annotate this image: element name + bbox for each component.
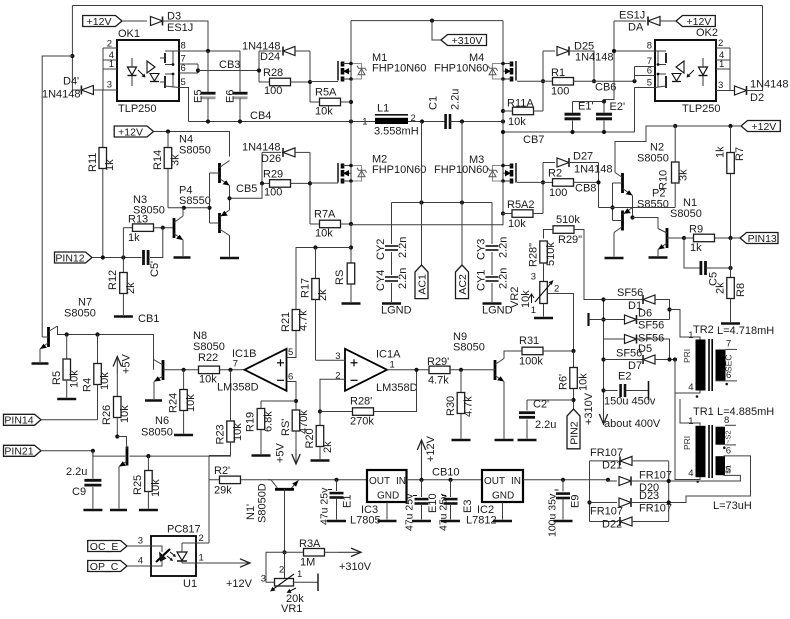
- wire to R5A2 node: [351, 214, 503, 225]
- ground LGND left: [382, 302, 401, 305]
- svg-text:R28: R28: [263, 67, 283, 79]
- svg-text:PIN2: PIN2: [568, 421, 580, 445]
- OK1 pin 6 wire: [179, 72, 198, 74]
- svg-text:3: 3: [718, 80, 723, 91]
- node N1 base: [682, 236, 686, 240]
- svg-text:+12V: +12V: [751, 121, 776, 133]
- wire N9 emitter ground: [503, 382, 505, 439]
- svg-text:PRI: PRI: [682, 436, 692, 450]
- svg-text:R31: R31: [519, 335, 539, 347]
- ground R8: [721, 322, 740, 325]
- wire left col to D4: [72, 89, 81, 91]
- resistor R5A 10k: [310, 101, 320, 103]
- wire IC1B pin6 node: [287, 382, 297, 411]
- potentiometer VR2 10k: [540, 282, 548, 304]
- svg-text:S8050: S8050: [453, 342, 485, 354]
- wire M3 gate column: [542, 163, 544, 214]
- resistor R20 2k: [319, 412, 321, 426]
- wire TR2 pin4: [675, 391, 700, 394]
- net label AC1: [415, 265, 428, 299]
- wire TR1 S2 bottom stub: [725, 444, 736, 446]
- wire N8 emitter down: [153, 382, 155, 400]
- capacitor C9 2.2u: [92, 451, 94, 479]
- wire IC3 in to +12V node: [407, 479, 483, 481]
- svg-text:2k: 2k: [715, 282, 727, 294]
- transistor P2 S8550: [621, 211, 624, 231]
- polarity dot TR2 sec: [725, 383, 728, 386]
- svg-text:R21: R21: [280, 312, 292, 332]
- svg-text:270k: 270k: [350, 416, 374, 428]
- ground N8 emitter: [145, 399, 162, 402]
- svg-text:GND: GND: [377, 491, 399, 502]
- node E9 top: [561, 478, 565, 482]
- svg-text:R29': R29': [427, 356, 449, 368]
- node M2 source R7A: [349, 222, 353, 226]
- capacitor C5 row: [684, 238, 700, 268]
- svg-text:CY2: CY2: [375, 239, 387, 260]
- node R5A to source: [349, 100, 353, 104]
- wire AC1 column: [421, 122, 423, 266]
- optocoupler OK2 TLP250 box: [655, 40, 716, 101]
- net label OC_E: [88, 541, 127, 552]
- svg-text:CB10: CB10: [432, 467, 460, 479]
- svg-text:R25: R25: [132, 475, 144, 495]
- svg-text:OUT: OUT: [484, 476, 505, 487]
- diode DA ES1J: [614, 20, 646, 22]
- svg-text:CB3: CB3: [219, 59, 240, 71]
- resistor R11A 10k: [503, 110, 513, 112]
- wire R2p left column: [208, 456, 210, 544]
- svg-text:R4: R4: [82, 378, 94, 392]
- svg-text:6.8k: 6.8k: [263, 411, 275, 432]
- svg-text:2.2u: 2.2u: [66, 466, 87, 478]
- node E5 top: [206, 49, 210, 53]
- net label +12V driver left: [114, 126, 153, 137]
- diode D2 1N4148: [730, 90, 735, 92]
- ground E10: [412, 520, 431, 523]
- wire N7 collector rail: [58, 326, 154, 370]
- svg-text:10k: 10k: [315, 106, 333, 118]
- node TR2 pin4 column: [673, 357, 677, 361]
- wire R29pp to SF56 bus: [574, 230, 604, 300]
- OK2 pin 2 stub: [716, 47, 730, 49]
- ground R5: [57, 398, 76, 401]
- svg-text:CB1: CB1: [138, 313, 159, 325]
- svg-text:+12V: +12V: [118, 126, 143, 138]
- svg-text:R2': R2': [214, 465, 230, 477]
- wire M2 source down: [350, 181, 352, 225]
- node RS R17 split: [349, 245, 353, 249]
- net label PIN14: [4, 414, 42, 425]
- svg-text:PC817: PC817: [167, 524, 201, 536]
- svg-text:3k: 3k: [170, 154, 182, 166]
- svg-text:4: 4: [688, 468, 693, 479]
- svg-text:R20: R20: [304, 428, 316, 448]
- OK1 internal receiver triangle: [147, 61, 155, 73]
- svg-text:2.2u: 2.2u: [535, 419, 556, 431]
- svg-text:10k: 10k: [315, 228, 333, 240]
- OK2 pin 7 wire: [635, 66, 656, 68]
- wire N6 out row: [130, 453, 231, 457]
- svg-text:1: 1: [297, 569, 302, 580]
- net label +12V right: [741, 121, 780, 132]
- capacitor E2prime: [603, 102, 605, 113]
- polarity dot TR1 S2: [723, 446, 726, 449]
- svg-text:10k: 10k: [508, 218, 526, 230]
- wire N9 collector to R31: [504, 351, 522, 359]
- svg-text:R8: R8: [735, 283, 747, 297]
- wire M2 gate column: [309, 152, 311, 224]
- wire driver base column left: [209, 173, 211, 223]
- svg-text:L=4.718mH: L=4.718mH: [717, 325, 774, 337]
- diode D21 FR107: [590, 460, 619, 462]
- svg-text:D2: D2: [750, 92, 764, 104]
- node R14 top: [166, 129, 170, 133]
- svg-text:E2': E2': [610, 101, 626, 113]
- wire M3 drain: [502, 122, 504, 166]
- OK1 internal photo arrows: [138, 70, 145, 77]
- transformer TR1 primary winding: [696, 426, 706, 477]
- svg-text:CB7: CB7: [523, 134, 544, 146]
- resistor R9 1k: [684, 237, 694, 239]
- svg-text:100: 100: [264, 85, 282, 97]
- svg-text:TLP250: TLP250: [118, 103, 157, 115]
- OK2 internal LED: [699, 67, 708, 75]
- svg-text:L7812: L7812: [466, 515, 497, 527]
- wire main bottom rail: [268, 479, 367, 481]
- ground N1 emitter: [649, 256, 668, 259]
- wire PIN14 to R4: [41, 419, 98, 421]
- capacitor C2prime 2.2u: [527, 399, 574, 401]
- resistor R10 3k: [674, 126, 676, 162]
- wire M4 source to rail: [502, 79, 504, 132]
- wire OK2 pin5 to CB7: [634, 88, 636, 133]
- ground N3 emitter: [174, 256, 191, 259]
- svg-text:5: 5: [726, 465, 731, 476]
- wire CB5 to gate network: [230, 183, 263, 198]
- ground R30: [452, 439, 471, 442]
- diode D6 SF56: [587, 313, 589, 326]
- svg-text:4: 4: [138, 556, 143, 567]
- wire TR2 pin6 stub: [716, 380, 738, 382]
- diode D20 FR107: [608, 480, 617, 482]
- capacitor E9 100u 35v: [562, 480, 564, 492]
- wire N6 row to R2p column: [209, 455, 231, 457]
- svg-text:C2': C2': [533, 399, 549, 411]
- node R12 top: [121, 255, 125, 259]
- net label PIN21: [4, 445, 42, 456]
- capacitor CY1 2.2n: [491, 252, 493, 275]
- svg-text:R30: R30: [445, 396, 457, 416]
- wire driver base column right: [612, 183, 614, 221]
- node R30 top: [459, 368, 463, 372]
- wire N1p collector down: [284, 489, 286, 552]
- op-amp IC1A LM358D: [345, 349, 387, 391]
- svg-text:6: 6: [288, 372, 293, 383]
- svg-text:2: 2: [279, 565, 284, 576]
- svg-text:5: 5: [647, 78, 652, 89]
- wire N3 collector up: [182, 208, 184, 216]
- wire M1 source to CB4: [350, 79, 352, 122]
- svg-text:FHP10N60: FHP10N60: [372, 63, 426, 75]
- resistor R2prime 29k: [209, 479, 230, 481]
- svg-text:510k: 510k: [545, 242, 557, 266]
- svg-text:R3A: R3A: [299, 538, 321, 550]
- node AC1 tap: [420, 119, 424, 123]
- svg-text:R6': R6': [558, 374, 570, 390]
- svg-text:1: 1: [390, 360, 395, 371]
- svg-text:1k: 1k: [690, 242, 702, 254]
- resistor R28doubleprime 510k: [540, 241, 548, 263]
- svg-text:R29: R29: [263, 169, 283, 181]
- capacitor E3 47u 25v: [450, 480, 452, 497]
- svg-text:DA: DA: [628, 22, 644, 34]
- resistor R28 100: [259, 81, 270, 83]
- svg-text:N1': N1': [245, 504, 257, 520]
- capacitor CY3 2.2n: [491, 203, 493, 245]
- arrow +12V pc817 out: [196, 562, 250, 564]
- OK2 pin 1 stub: [716, 68, 730, 70]
- diode D22 FR107: [590, 521, 619, 523]
- wire R17 row: [296, 247, 351, 249]
- svg-text:CY4: CY4: [375, 270, 387, 291]
- svg-text:OP_C: OP_C: [90, 561, 119, 573]
- transformer TR1 secondary S2: [716, 427, 726, 445]
- svg-text:+12V: +12V: [226, 578, 253, 590]
- svg-text:R12: R12: [107, 270, 119, 290]
- svg-text:OUT: OUT: [369, 476, 390, 487]
- svg-text:2.2n: 2.2n: [397, 237, 409, 258]
- wire to R19: [261, 400, 296, 402]
- wire P2 collector to ground: [613, 233, 615, 257]
- node R5A2: [501, 211, 505, 215]
- svg-text:10k: 10k: [99, 372, 111, 390]
- svg-text:R19: R19: [245, 412, 257, 432]
- svg-text:D3: D3: [167, 11, 181, 23]
- wire M3 source down: [502, 181, 504, 223]
- node +310V tap: [430, 19, 434, 23]
- ground IC3: [378, 520, 397, 523]
- diode D7 SF56: [604, 359, 644, 361]
- node TR2 pin1 tap: [667, 307, 671, 311]
- wire rect bus B: [668, 461, 670, 522]
- svg-text:U1: U1: [183, 578, 197, 590]
- wire IC1A output: [387, 369, 429, 371]
- node R7 top: [728, 124, 732, 128]
- node R10 top: [673, 124, 677, 128]
- svg-text:CY1: CY1: [476, 270, 488, 291]
- wire M1 gate column: [309, 51, 311, 102]
- OK1 pin 3 stub: [103, 89, 117, 91]
- capacitor C5prime: [142, 250, 145, 265]
- svg-text:R1: R1: [551, 67, 565, 79]
- svg-text:C1: C1: [428, 96, 440, 110]
- ground R24: [174, 434, 193, 437]
- node AC2 tap: [460, 119, 464, 123]
- node CB8: [596, 180, 600, 184]
- OK1 input side vertical: [102, 48, 104, 90]
- wire AC2 column: [461, 122, 463, 266]
- wire to N6 collector: [117, 437, 126, 444]
- PC817 photo arrows: [167, 556, 172, 560]
- svg-text:FHP10N60: FHP10N60: [434, 164, 488, 176]
- svg-text:2.2n: 2.2n: [498, 237, 510, 258]
- svg-text:+12V: +12V: [686, 16, 711, 28]
- capacitor CY2 2.2n: [391, 203, 393, 245]
- ground C9: [83, 509, 102, 512]
- svg-text:R5: R5: [51, 371, 63, 385]
- svg-text:+5V: +5V: [275, 442, 287, 463]
- svg-text:8: 8: [647, 41, 652, 52]
- wire IC1A pin3: [316, 359, 346, 361]
- OK1 internal output stage: [164, 53, 166, 63]
- svg-text:ES1J: ES1J: [167, 22, 193, 34]
- wire +310V bus between M1 M4 drains: [351, 20, 503, 22]
- node R11A at source: [501, 109, 505, 113]
- node M4 source / M3 drain: [501, 119, 505, 123]
- wire to +310V pennant: [432, 21, 441, 40]
- wire D3 cathode to E5/pin8 node: [163, 21, 208, 51]
- wire R7 col to C5 node: [730, 238, 732, 278]
- wire TR2 pin1: [670, 310, 701, 340]
- supply arrow +5V: [116, 357, 118, 375]
- svg-text:29k: 29k: [214, 485, 232, 497]
- ground N7 emitter: [32, 362, 49, 365]
- node fb divider: [294, 399, 298, 403]
- wire N2 base stub: [613, 182, 623, 184]
- node M3 gate: [541, 180, 545, 184]
- node C5 R8: [728, 266, 732, 270]
- OK2 pin 6 wire: [635, 75, 656, 77]
- svg-text:CB4: CB4: [250, 110, 271, 122]
- svg-text:E9: E9: [570, 495, 582, 508]
- svg-text:FHP10N60: FHP10N60: [372, 164, 426, 176]
- ground R19: [252, 454, 271, 457]
- svg-text:1N4148: 1N4148: [575, 52, 614, 64]
- svg-text:R24: R24: [168, 393, 180, 413]
- inductor L1 3.558mH: [375, 114, 408, 116]
- svg-text:IN: IN: [396, 476, 406, 487]
- svg-text:3: 3: [107, 80, 112, 91]
- svg-text:+310V: +310V: [452, 35, 483, 47]
- svg-text:SF56: SF56: [616, 348, 642, 360]
- IC3 L7805 box: [367, 470, 407, 502]
- svg-text:1M: 1M: [300, 557, 315, 569]
- svg-text:10k: 10k: [150, 479, 162, 497]
- node E6 bottom: [238, 119, 242, 123]
- resistor R23 10k: [227, 421, 235, 442]
- svg-text:FR107: FR107: [590, 447, 623, 459]
- node D1 bus: [601, 297, 605, 301]
- svg-text:GND: GND: [492, 491, 514, 502]
- svg-text:TR1: TR1: [693, 406, 714, 418]
- net label +12V (top left): [83, 16, 122, 27]
- diode D5 SF56: [604, 338, 625, 340]
- resistor R17 2k: [315, 248, 317, 279]
- svg-text:PIN21: PIN21: [4, 446, 33, 458]
- node CB3 column: [258, 51, 260, 82]
- svg-text:100k: 100k: [519, 356, 543, 368]
- node R11 bottom: [101, 255, 105, 259]
- svg-text:S8550: S8550: [637, 199, 669, 211]
- svg-text:S8050: S8050: [64, 308, 96, 320]
- svg-text:510k: 510k: [556, 214, 580, 226]
- wire L1 to C1: [408, 121, 446, 123]
- ground R25: [139, 509, 158, 512]
- svg-text:OK2: OK2: [696, 27, 718, 39]
- resistor R19 6.8k: [260, 401, 262, 409]
- ground E3: [441, 520, 460, 523]
- wire N7 emitter down: [39, 349, 41, 362]
- net CB7 rail: [503, 131, 635, 133]
- diode D25: [543, 50, 555, 52]
- wire IC1B pin5 to R21: [287, 331, 297, 358]
- wire M3 gate lead: [517, 181, 543, 183]
- OK2 input side vertical: [729, 48, 731, 91]
- net label +12V (OK2 anode): [676, 16, 715, 27]
- wire P2 base stub: [613, 220, 623, 222]
- wire N8 base row to R22: [163, 369, 199, 371]
- transistor N2 S8050: [621, 173, 624, 193]
- svg-text:FR107: FR107: [639, 503, 672, 515]
- svg-text:2: 2: [718, 38, 723, 49]
- wire DA column to pin8 and E caps: [604, 21, 614, 102]
- optocoupler OK1 TLP250 box: [117, 40, 179, 101]
- wire N3 emitter to ground: [182, 240, 184, 256]
- wire M4 gate column: [542, 51, 544, 111]
- svg-text:6: 6: [181, 63, 186, 74]
- svg-text:R9: R9: [689, 224, 703, 236]
- svg-text:CB5: CB5: [236, 183, 257, 195]
- OK1 pin 7 wire: [179, 63, 198, 65]
- transformer TR1 secondary S1: [716, 456, 726, 475]
- svg-text:10k: 10k: [69, 370, 81, 388]
- svg-text:D26: D26: [261, 153, 281, 165]
- OK1 internal LED: [128, 67, 137, 75]
- capacitor E1prime: [572, 102, 574, 113]
- node fb R20 R28p: [318, 409, 322, 413]
- svg-text:1: 1: [362, 117, 367, 128]
- potentiometer VR1 20k: [284, 552, 286, 578]
- svg-text:S8550: S8550: [179, 195, 211, 207]
- node E2 bus: [601, 388, 605, 392]
- node E3 top: [448, 478, 452, 482]
- svg-text:RS: RS: [334, 270, 346, 285]
- wire TR1 pin1: [680, 412, 700, 426]
- svg-text:1: 1: [688, 416, 693, 427]
- ground CB1: [114, 315, 133, 318]
- capacitor E1 47u 25v: [336, 480, 338, 491]
- transistor N6 S8050: [126, 447, 129, 466]
- node N3 collector: [182, 206, 186, 210]
- resistor R26 10k: [116, 374, 118, 397]
- OK1 pin 5 wire: [179, 88, 189, 122]
- ground C2p: [518, 439, 537, 442]
- svg-text:OK1: OK1: [118, 28, 140, 40]
- wire R10 bottom link: [613, 207, 676, 209]
- OK2 internal photo arrows: [687, 70, 694, 77]
- svg-text:R13: R13: [128, 214, 148, 226]
- svg-text:3: 3: [261, 574, 266, 585]
- svg-text:R28': R28': [350, 396, 372, 408]
- svg-text:R5A: R5A: [315, 87, 337, 99]
- resistor RSprime 470k: [292, 410, 300, 431]
- OK2 pin 8 wire: [614, 50, 655, 52]
- transistor M3 FHP10N60: [510, 164, 514, 169]
- node M2 gate: [308, 181, 312, 185]
- svg-text:E1': E1': [578, 101, 594, 113]
- svg-text:E6: E6: [225, 90, 237, 103]
